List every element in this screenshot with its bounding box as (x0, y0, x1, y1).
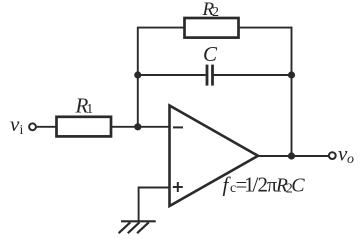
svg-text:1: 1 (86, 102, 93, 117)
node output junction (288, 152, 295, 159)
wire non-inverting input to ground drop (139, 188, 170, 221)
ground (119, 221, 156, 233)
wire top-left to R2 (137, 27, 185, 29)
output terminal vo (329, 152, 336, 159)
node capacitor-right junction (288, 71, 295, 78)
label fc formula (223, 173, 306, 197)
wire capacitor right lead (214, 74, 292, 76)
capacitor C (207, 65, 213, 86)
resistor R1 (57, 117, 112, 137)
op-amp U1 (170, 106, 259, 207)
node inverting input junction (134, 123, 141, 130)
wire R2 to top-right (239, 27, 293, 29)
wire R1 to op-amp inverting input (111, 126, 170, 128)
input terminal vi (29, 123, 36, 130)
wire input to R1 (36, 126, 56, 128)
label vi (10, 112, 24, 138)
svg-text:C: C (291, 175, 305, 197)
node capacitor-left junction (134, 71, 141, 78)
svg-text:o: o (347, 152, 354, 167)
svg-text:2: 2 (212, 5, 219, 20)
label R1 (75, 94, 94, 118)
svg-text:v: v (10, 112, 20, 136)
label R2 (202, 0, 220, 20)
resistor R2 (185, 18, 239, 38)
svg-text:i: i (20, 123, 24, 138)
wire capacitor left lead (138, 74, 206, 76)
wire op-amp output (258, 155, 330, 157)
wire left feedback vertical (137, 28, 139, 127)
label C (203, 42, 218, 66)
label vo (338, 141, 354, 166)
svg-text:C: C (203, 42, 218, 66)
wire right feedback vertical (291, 27, 293, 156)
